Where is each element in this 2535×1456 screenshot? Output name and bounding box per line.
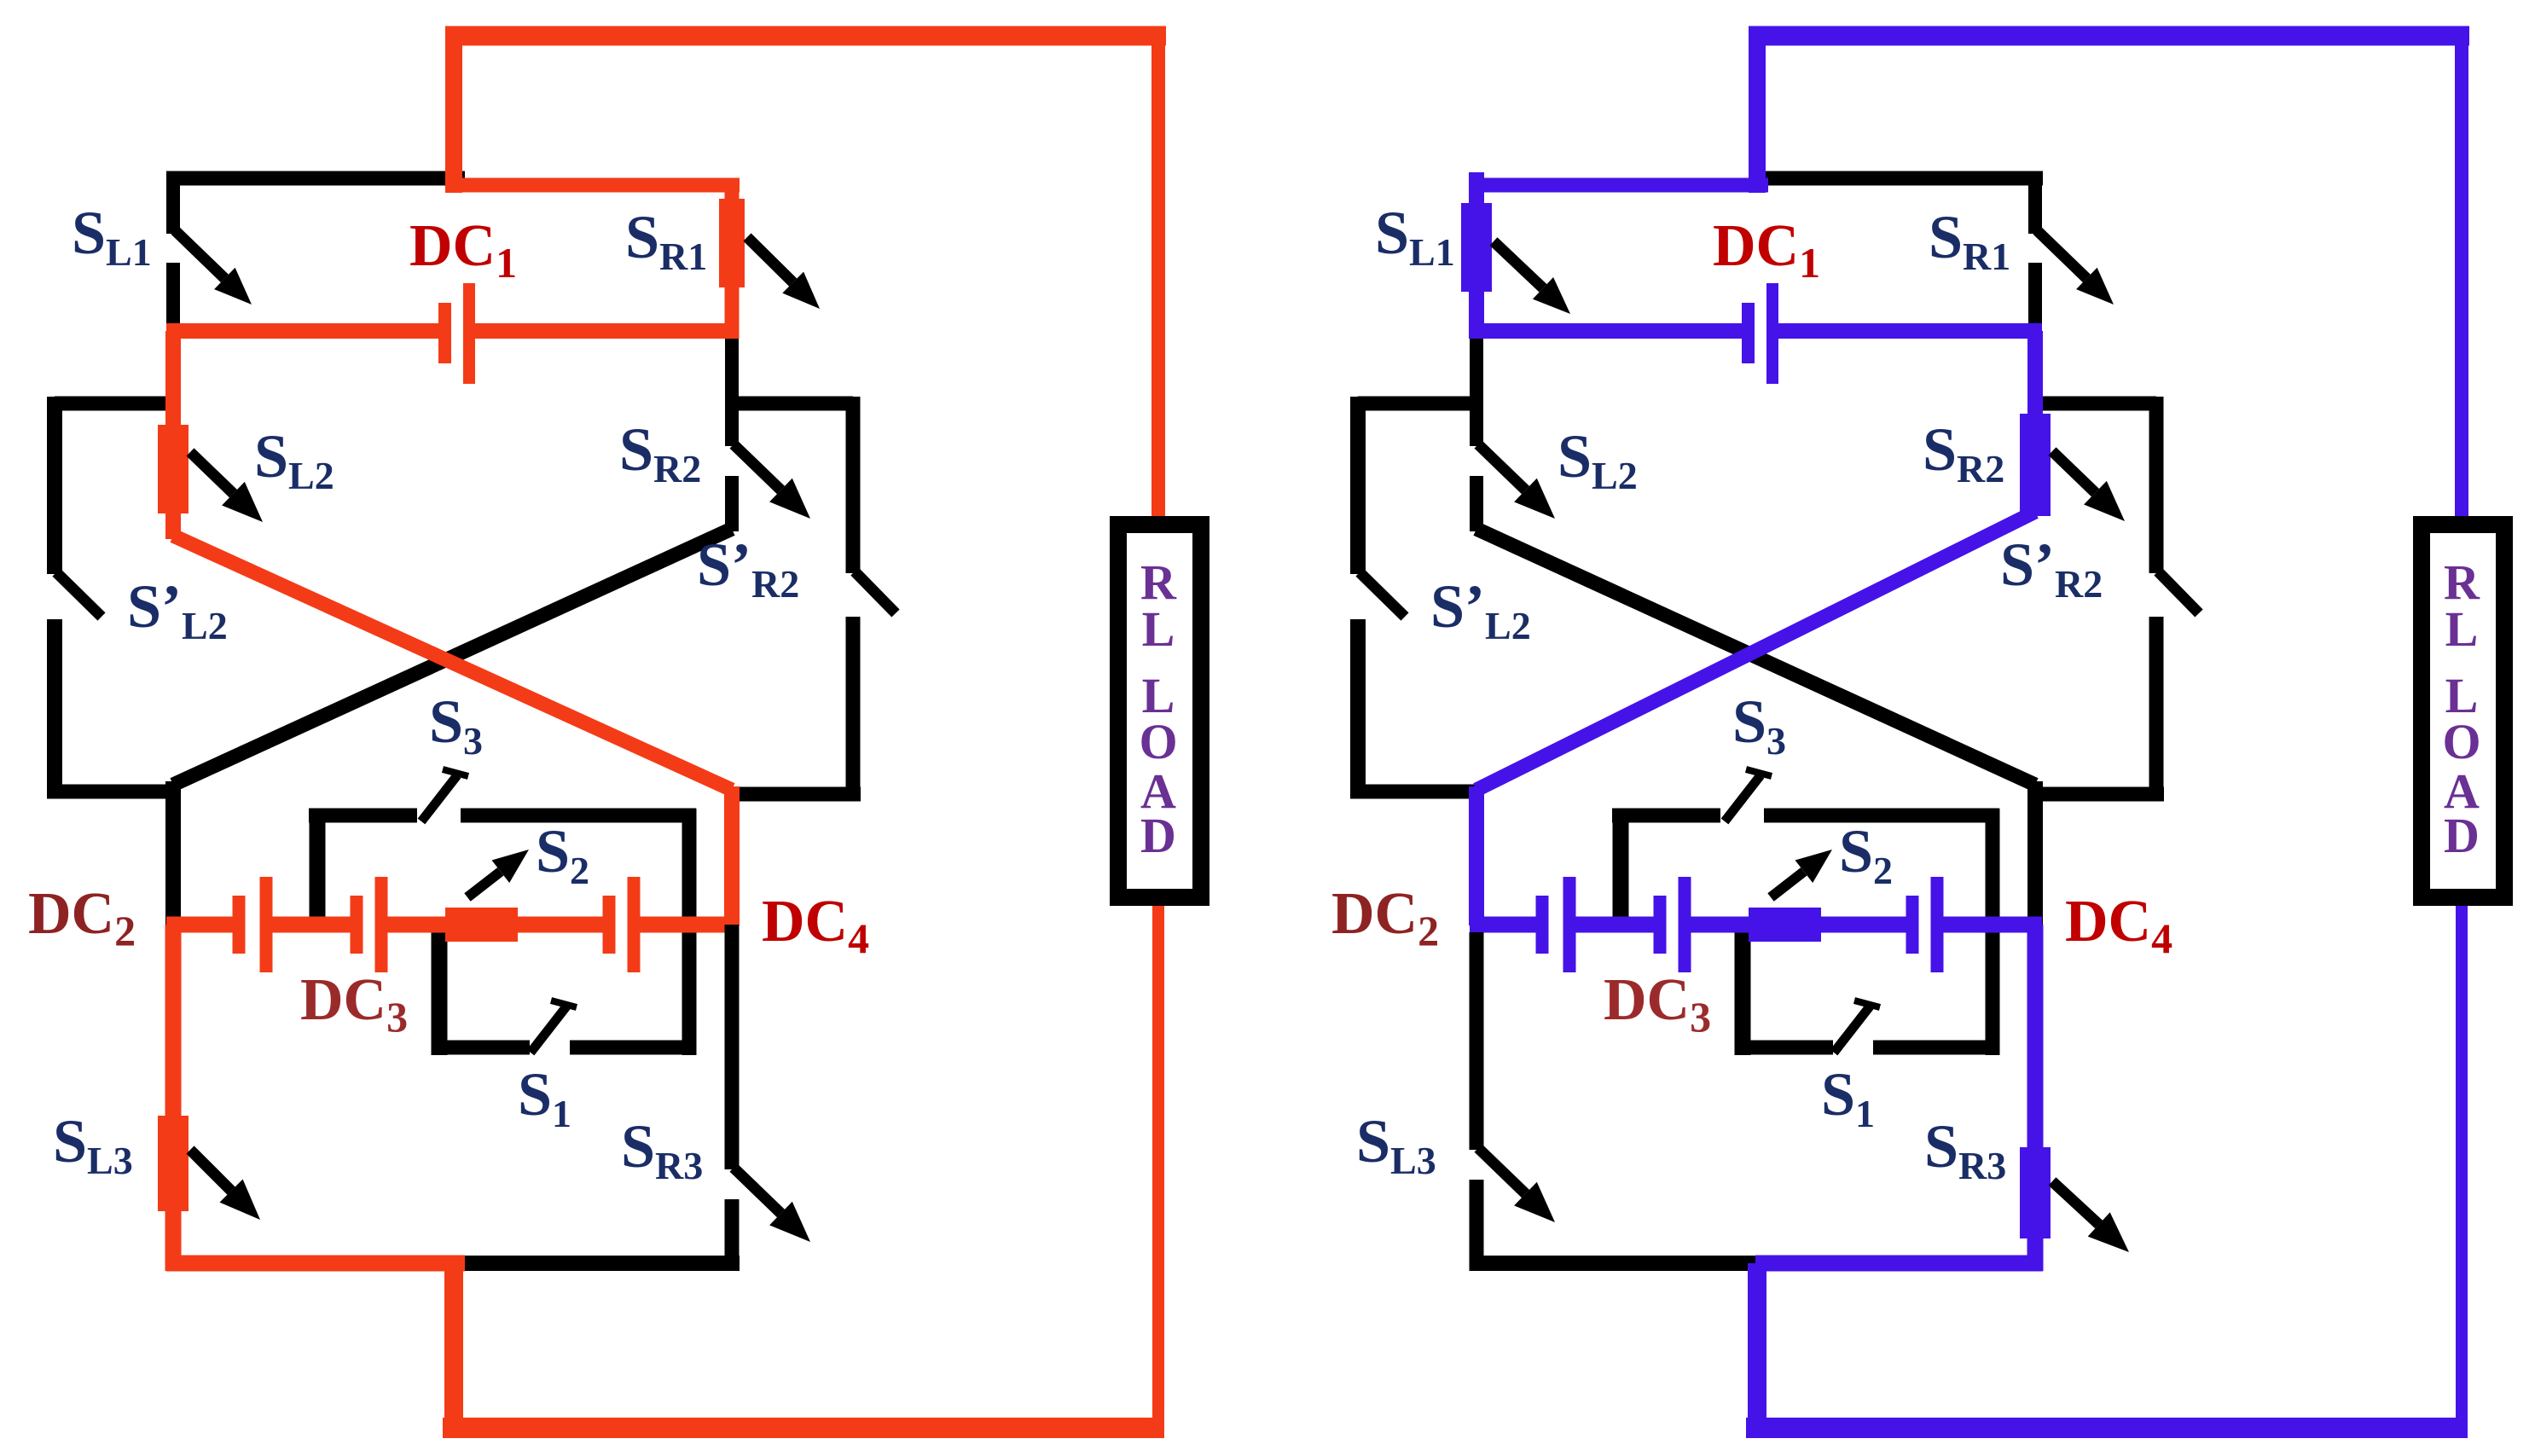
wire box2 bottom edge right: [2035, 787, 2164, 802]
switch S_L1 arrow: [1494, 241, 1543, 288]
switch S1 blade tick: [551, 1001, 577, 1007]
wire S1 bottom edge left: [1735, 1041, 1833, 1055]
switch S3 blade: [421, 775, 457, 821]
switch S_R2 lower stub: [725, 476, 739, 531]
wire DC2 corner to S_L3: [1470, 932, 1484, 1150]
switch S_L1 lower stub: [1469, 290, 1484, 339]
wire highlighted cross diagonal: [1476, 512, 2035, 790]
wire S2 box right edge: [682, 809, 697, 1055]
wire highlighted cross diagonal: [173, 536, 732, 790]
wire black cross diagonal: [1476, 529, 2035, 785]
switch S3 blade tick: [1746, 769, 1772, 776]
wire drop to bottom rail: [444, 1263, 463, 1429]
wire box2 left edge lower: [47, 619, 62, 792]
wire box1 top edge black segment: [1749, 171, 2043, 186]
wire DC1 row left: [166, 323, 441, 339]
wire top rail (left): [445, 26, 1166, 46]
switch S_R1 upper stub: [725, 179, 740, 205]
switch S'_L2 blade: [1360, 572, 1405, 617]
wire bottom edge black: [1470, 1256, 1761, 1271]
wire drop to bottom rail: [1748, 1263, 1766, 1429]
wire DC row segment 2: [1575, 917, 1656, 933]
switch S1 blade tick: [1854, 1001, 1880, 1007]
wire black diagonal to DC4 corner vertical: [2027, 781, 2043, 925]
switch S_L2 feed from DC1 row: [165, 331, 181, 428]
wire box2 top edge left: [55, 397, 173, 411]
wire DC row segment 1: [166, 917, 235, 933]
wire bottom edge highlighted: [166, 1256, 465, 1272]
wire rail to RL LOAD top (left): [1151, 26, 1165, 520]
wire S3 line left: [309, 809, 417, 823]
switch S_R1 arrow: [747, 237, 793, 282]
switch S1 blade: [531, 1006, 566, 1053]
wire box2 bottom edge right: [732, 787, 861, 802]
wire box2 right edge lower: [846, 617, 861, 796]
wire DC row segment 1: [1470, 917, 1538, 933]
wire box2 right edge upper: [846, 397, 861, 573]
switch S_L2 blade arrow: [1478, 444, 1526, 490]
switch S_R2 upper stub: [725, 339, 739, 446]
wire top-rail feed vertical (left): [445, 36, 462, 193]
switch S2 closed bar: [1749, 908, 1821, 942]
wire S1 loop left edge: [432, 925, 448, 1055]
wire box2 top edge left: [1358, 397, 1476, 411]
wire DC4 corner to S_R3: [725, 925, 740, 1169]
wire diagonal to DC4 corner vertical: [724, 786, 740, 925]
wire bottom rail to RL LOAD (left): [1152, 900, 1164, 1428]
wire box2 top edge right: [732, 397, 853, 411]
wire box1 top edge black segment: [166, 171, 465, 186]
switch S_R2 closed bar: [2020, 414, 2051, 516]
wire bottom rail (right): [1746, 1418, 2468, 1438]
svg-text:L: L: [2445, 601, 2479, 657]
switch S_L2 closed bar: [158, 425, 189, 513]
RL LOAD box (left): [1118, 525, 1201, 897]
wire DC row segment 4: [1819, 917, 1909, 933]
switch S2 arrow: [467, 872, 501, 897]
wire S1 bottom edge right: [570, 1041, 696, 1055]
wire DC row segment 3: [387, 917, 449, 933]
switch S_R1 lower stub: [725, 286, 740, 339]
wire S1 bottom edge right: [1873, 1041, 1999, 1055]
wire top rail (right): [1749, 26, 2469, 46]
wire S1 loop left edge: [1735, 925, 1751, 1055]
wire bottom rail (left): [443, 1418, 1164, 1438]
svg-text:D: D: [1140, 808, 1176, 863]
wire S2 box left edge: [1613, 809, 1629, 925]
switch S_L1 lower stub: [166, 263, 180, 339]
wire S2 box left edge: [310, 809, 326, 925]
switch S_R2 blade arrow: [734, 444, 781, 490]
wire DC4 corner to S_R3: [2027, 925, 2044, 1149]
battery DC1 tall plate: [1766, 283, 1778, 384]
switch S_R3 lower stub: [725, 1199, 740, 1271]
switch S'_R2 blade: [2158, 571, 2199, 613]
wire top-rail feed vertical (right): [1749, 36, 1766, 193]
switch S_R1 lower stub: [2028, 263, 2042, 339]
wire box1 top edge highlighted segment: [445, 178, 740, 193]
wire DC1 row right: [1777, 323, 2042, 339]
wire box2 bottom edge left: [1350, 785, 1484, 799]
switch S'_R2 blade: [855, 571, 896, 613]
switch S_R3 closed bar: [2020, 1147, 2051, 1238]
switch S_L2 lower stub: [1470, 476, 1483, 531]
wire DC1 row right: [473, 323, 739, 339]
wire DC row segment 4: [516, 917, 606, 933]
wire box2 left edge lower: [1350, 619, 1366, 792]
battery DC1 tall plate: [463, 283, 475, 384]
wire DC1 row left: [1470, 323, 1744, 339]
switch S'_L2 blade: [56, 572, 102, 617]
wire diagonal to DC2 corner vertical: [1469, 786, 1484, 925]
wire rail to RL LOAD top (right): [2455, 26, 2468, 520]
wire black diagonal to DC2 corner vertical: [165, 781, 181, 925]
switch S_L1 upper stub: [166, 172, 180, 234]
wire S3 line left: [1612, 809, 1720, 823]
switch S_R2 arrow: [2052, 451, 2096, 493]
wire bottom edge black: [458, 1256, 740, 1271]
wire bottom edge highlighted: [1755, 1256, 2043, 1272]
svg-text:L: L: [1142, 601, 1175, 657]
switch S_L2 upper stub: [1470, 339, 1483, 446]
switch S_R3 lower stub: [2027, 1237, 2044, 1271]
wire box2 right edge lower: [2149, 617, 2164, 796]
wire box2 right edge upper: [2149, 397, 2164, 573]
svg-text:O: O: [1139, 714, 1177, 769]
wire S1 bottom edge left: [432, 1041, 530, 1055]
switch S_L1 blade arrow: [175, 230, 224, 278]
wire DC row segment 5: [1943, 917, 2042, 933]
wire box2 top edge right: [2035, 397, 2156, 411]
switch S_L3 blade arrow: [1478, 1148, 1526, 1194]
svg-text:D: D: [2444, 808, 2480, 863]
wire box1 top edge highlighted segment: [1470, 178, 1768, 193]
wire bottom rail to RL LOAD (right): [2456, 900, 2468, 1428]
switch S_L3 closed bar: [158, 1116, 189, 1211]
wire box2 left edge upper: [47, 397, 62, 574]
wire box2 left edge upper: [1350, 397, 1366, 574]
switch S_L2 arrow: [190, 452, 234, 494]
switch S_R1 upper stub: [2028, 172, 2042, 234]
switch S_R2 feed from DC1 row: [2027, 331, 2043, 428]
RL LOAD box (right): [2422, 525, 2504, 897]
switch S3 blade: [1725, 775, 1761, 821]
switch S_L1 closed bar: [1461, 203, 1492, 292]
wire black cross diagonal: [173, 529, 732, 785]
switch S_L3 arrow: [190, 1150, 231, 1191]
switch S_R3 blade arrow: [734, 1168, 781, 1214]
switch S_L3 lower stub: [165, 1209, 182, 1271]
switch S_R3 arrow: [2052, 1181, 2099, 1225]
wire DC row segment 2: [272, 917, 352, 933]
switch S2 arrow: [1771, 872, 1804, 897]
wire box2 bottom edge left: [47, 785, 181, 799]
wire DC2 corner to S_L3: [165, 925, 182, 1117]
wire DC row segment 5: [640, 917, 739, 933]
switch S_R1 blade arrow: [2037, 230, 2086, 278]
wire DC row segment 3: [1691, 917, 1752, 933]
switch S3 blade tick: [443, 769, 468, 776]
switch S2 closed bar: [445, 908, 518, 942]
switch S_L3 lower stub: [1470, 1180, 1484, 1271]
wire S2 box right edge: [1986, 809, 2000, 1055]
wire S3 line right: [461, 809, 696, 823]
switch S1 blade: [1834, 1006, 1870, 1053]
switch S_L1 upper stub: [1469, 172, 1484, 208]
svg-text:O: O: [2442, 714, 2480, 769]
switch S_R1 closed bar: [719, 199, 745, 287]
wire S3 line right: [1764, 809, 1999, 823]
battery DC1 short plate: [1742, 303, 1755, 363]
battery DC1 short plate: [438, 303, 451, 363]
switch S_L2 lower stub: [165, 512, 181, 539]
